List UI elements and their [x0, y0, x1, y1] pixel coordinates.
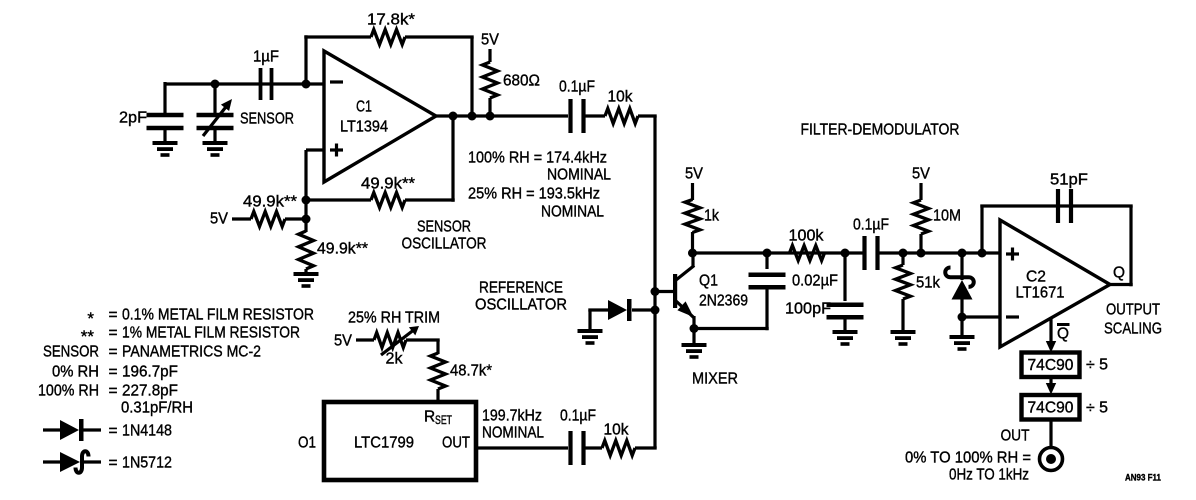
label 10k top — [608, 89, 633, 106]
schottky 1N5712 cathode curve — [945, 268, 974, 287]
Q1 collector diagonal — [676, 266, 694, 281]
wire 100pF to ground — [843, 317, 846, 331]
node junction 0.02uF — [763, 249, 772, 258]
label O1 — [298, 435, 316, 452]
label 0.1uF bottom — [560, 408, 596, 425]
svg-text:227.8pF: 227.8pF — [122, 383, 178, 400]
node junction output-a — [449, 112, 458, 121]
node junction collector — [688, 249, 697, 258]
wire plus input row — [963, 251, 1000, 254]
label 10k bottom — [604, 422, 629, 439]
svg-text:100% RH = 174.4kHz: 100% RH = 174.4kHz — [468, 150, 607, 167]
svg-text:÷ 5: ÷ 5 — [1086, 400, 1108, 417]
label 25% RH TRIM — [348, 310, 440, 327]
svg-text:LT1394: LT1394 — [340, 119, 388, 136]
ground 2pF — [153, 141, 178, 157]
wire C2 output — [1110, 283, 1133, 286]
transistor Q1 base bar — [673, 274, 677, 308]
svg-text:=: = — [108, 325, 117, 342]
node junction 51k — [899, 249, 908, 258]
wire 0.02uF bottom stub — [765, 287, 768, 330]
wire 1k to collector — [691, 232, 694, 253]
wire 5V stub 10M — [919, 183, 922, 200]
svg-text:1N4148: 1N4148 — [122, 423, 172, 440]
wire diode gnd stub — [588, 310, 591, 330]
wire lower feedback row — [306, 198, 371, 201]
C2 minus marker — [1006, 315, 1019, 318]
wire schottky bottom stub — [960, 299, 963, 317]
label legend 1N5712 — [122, 455, 172, 472]
label 0Hz TO 1kHz — [949, 467, 1029, 484]
resistor R 100k — [790, 246, 825, 261]
svg-text:0.1µF: 0.1µF — [559, 79, 595, 96]
label 100k — [789, 228, 824, 245]
svg-text:C1: C1 — [356, 99, 372, 116]
svg-text:199.7kHz: 199.7kHz — [482, 408, 542, 425]
wire collector row — [693, 251, 866, 254]
ground diode input — [578, 329, 603, 345]
node junction minus input — [958, 313, 967, 322]
label legend eq5 — [108, 383, 117, 400]
label legend 100% value — [122, 383, 178, 400]
resistor R 1k — [685, 200, 700, 233]
wire 5V stub 680 — [488, 49, 491, 62]
wire diode anode — [588, 308, 609, 311]
svg-text:NOMINAL: NOMINAL — [547, 167, 611, 184]
svg-text:=: = — [108, 455, 117, 472]
wire C1 output row — [436, 114, 568, 117]
svg-text:1N5712: 1N5712 — [122, 455, 172, 472]
wire 51k to ground — [901, 299, 904, 331]
resistor R 10k bottom — [602, 441, 635, 456]
svg-text:SCALING: SCALING — [1104, 321, 1162, 338]
wire box1 to box2 arrow — [1046, 377, 1056, 395]
label legend 0% value — [122, 364, 178, 381]
wire plus input vertical — [304, 150, 307, 219]
label 0.1uF top — [559, 79, 595, 96]
label 49.9k** shunt — [317, 241, 368, 258]
label 680ohm — [503, 73, 540, 90]
svg-text:49.9k**: 49.9k** — [317, 241, 368, 258]
svg-text:OUT: OUT — [442, 435, 470, 452]
ground schottky — [950, 335, 975, 351]
svg-text:2N2369: 2N2369 — [699, 293, 748, 310]
label 0.1uF mid — [853, 217, 889, 234]
IC O1 LTC1799 box — [324, 402, 476, 480]
wire 48.7k to box — [436, 389, 439, 403]
resistor R 49.9k shunt — [299, 231, 314, 269]
IC 74C90 second box — [1022, 395, 1080, 420]
label NOMINAL 2 — [541, 204, 604, 221]
label 10M — [933, 208, 961, 225]
svg-text:NOMINAL: NOMINAL — [541, 204, 604, 221]
label 5V 1k — [685, 166, 704, 183]
output connector — [1040, 448, 1063, 471]
wire 10k to corner — [638, 114, 657, 117]
wire 51k stub — [901, 253, 904, 265]
wire corner down 48.7k — [436, 340, 439, 354]
label OUT connector — [1001, 428, 1030, 445]
wire lower feedback vertical — [451, 116, 454, 202]
legend schottky 1N5712 triangle — [60, 452, 80, 472]
svg-text:SENSOR: SENSOR — [240, 111, 294, 128]
legend schottky 1N5712 cathode — [76, 451, 89, 473]
wire feedback up — [980, 205, 983, 253]
wire emitter vertical — [692, 316, 695, 344]
label 1uF value — [253, 49, 279, 66]
wire feedback down — [1129, 206, 1132, 286]
label legend slope — [121, 400, 193, 417]
label RSET pin — [424, 409, 452, 428]
wire feedback right vertical — [470, 37, 473, 116]
svg-text:÷ 5: ÷ 5 — [1086, 357, 1108, 374]
label 0.02uF — [792, 273, 838, 290]
wire input row — [165, 82, 324, 85]
wire lower feedback right — [405, 198, 455, 201]
label legend eq3 — [108, 344, 117, 361]
wire Qbar arrow — [1046, 317, 1056, 353]
svg-text:R: R — [424, 409, 435, 426]
label legend starstar value — [122, 325, 300, 342]
label REFERENCE — [479, 280, 563, 297]
label NOMINAL 1 — [547, 167, 611, 184]
resistor R 48.7k — [431, 353, 446, 389]
svg-text:51pF: 51pF — [1050, 172, 1088, 189]
capacitor 51pF — [1058, 189, 1071, 223]
schottky 1N5712 triangle — [952, 280, 973, 300]
label 5V pot — [334, 333, 353, 350]
label legend eq2 — [108, 325, 117, 342]
wire emitter row — [694, 327, 769, 330]
label C2 — [1026, 269, 1046, 286]
label 25% RH — [468, 186, 600, 203]
node junction diode wire — [651, 306, 660, 315]
label legend SENSOR — [43, 344, 99, 361]
label OUTPUT — [1106, 302, 1160, 319]
label div5 second — [1086, 400, 1108, 417]
node junction output-b — [468, 112, 477, 121]
label OUT pin — [442, 435, 470, 452]
label LT1394 — [340, 119, 388, 136]
wire pot to corner — [406, 338, 440, 341]
svg-text:0.1µF: 0.1µF — [853, 217, 889, 234]
wire bias node to shunt resistor — [304, 219, 307, 232]
legend schottky 1N5712 wire-in — [43, 460, 61, 463]
pot arrow — [381, 326, 419, 355]
svg-text:17.8k*: 17.8k* — [367, 12, 415, 29]
Q1 emitter diagonal — [676, 301, 694, 318]
label 51pF — [1050, 172, 1088, 189]
capacitor 2pF — [147, 115, 184, 128]
svg-text:OUT: OUT — [1001, 428, 1030, 445]
svg-text:REFERENCE: REFERENCE — [479, 280, 563, 297]
label 199.7kHz — [482, 408, 542, 425]
sensor variable arrow — [203, 99, 232, 136]
svg-text:OSCILLATOR: OSCILLATOR — [402, 236, 487, 253]
label legend 1N4148 — [122, 423, 172, 440]
svg-text:MIXER: MIXER — [692, 371, 738, 388]
capacitor 0.1uF mid — [865, 236, 878, 270]
wire 49.9k shunt to ground — [304, 269, 307, 273]
label 0% TO 100% RH = — [905, 450, 1031, 467]
ground mixer emitter — [682, 343, 707, 359]
wire cap-mid to 51k — [878, 251, 966, 254]
label legend 0% RH — [52, 364, 99, 381]
svg-text:680Ω: 680Ω — [503, 73, 540, 90]
svg-text:AN93 F11: AN93 F11 — [1125, 472, 1162, 483]
label FILTER-DEMODULATOR — [801, 122, 960, 139]
resistor R 51k — [896, 265, 911, 299]
svg-text:5V: 5V — [210, 211, 229, 228]
wire LTC1799 out — [476, 446, 568, 449]
svg-text:5V: 5V — [685, 166, 704, 183]
svg-text:49.9k**: 49.9k** — [361, 176, 415, 193]
ground sensor — [203, 141, 228, 157]
label AN93 F11 — [1125, 472, 1162, 483]
wire feedback top — [980, 204, 1132, 207]
svg-text:100pF: 100pF — [785, 301, 831, 318]
resistor R 10M — [914, 200, 929, 234]
label 2pF value — [119, 110, 147, 127]
C2 plus marker — [1006, 248, 1019, 261]
svg-text:5V: 5V — [334, 333, 353, 350]
label 49.9k** bias — [243, 194, 297, 211]
resistor R 10k top — [605, 109, 638, 124]
svg-text:O1: O1 — [298, 435, 316, 452]
svg-text:1k: 1k — [704, 208, 719, 225]
legend diode 1N4148 wire-out — [84, 428, 102, 431]
svg-text:196.7pF: 196.7pF — [122, 364, 178, 381]
svg-text:Q: Q — [1113, 265, 1125, 282]
wire 49.9k bias to node — [285, 217, 306, 220]
label legend eq4 — [108, 364, 117, 381]
capacitor 0.1uF bottom — [571, 431, 584, 465]
label 74C90 first — [1028, 357, 1074, 374]
resistor R 49.9k feedback — [371, 193, 405, 208]
op-amp C1 LT1394 triangle — [324, 51, 436, 182]
capacitor 1uF — [261, 68, 272, 100]
wire top feedback right — [405, 35, 474, 38]
wire sensor to ground — [213, 128, 216, 142]
svg-text:SENSOR: SENSOR — [417, 219, 471, 236]
svg-text:C2: C2 — [1026, 269, 1046, 286]
wire 10k to bus — [635, 446, 657, 449]
op-amp C2 LT1671 triangle — [1000, 220, 1110, 347]
node junction emitter — [690, 324, 699, 333]
label 2N2369 — [699, 293, 748, 310]
svg-text:100k: 100k — [789, 228, 824, 245]
svg-text:25% RH = 193.5kHz: 25% RH = 193.5kHz — [468, 186, 600, 203]
legend diode 1N4148 symbol — [60, 419, 84, 441]
svg-text:25% RH TRIM: 25% RH TRIM — [348, 310, 440, 327]
svg-text:=: = — [108, 307, 117, 324]
label 5V 10M — [912, 166, 931, 183]
wire minus input row — [962, 315, 1000, 318]
label legend eq6 — [108, 423, 117, 440]
capacitor 0.02uF — [749, 275, 786, 288]
label 17.8k* — [367, 12, 415, 29]
svg-text:1% METAL FILM RESISTOR: 1% METAL FILM RESISTOR — [122, 325, 300, 342]
label REF OSCILLATOR — [475, 297, 567, 314]
svg-text:0Hz TO 1kHz: 0Hz TO 1kHz — [949, 467, 1029, 484]
svg-text:100% RH: 100% RH — [38, 383, 99, 400]
label Q out — [1113, 265, 1125, 282]
svg-text:=: = — [108, 423, 117, 440]
resistor R 49.9k bias — [251, 212, 285, 227]
node junction feedback2 — [302, 196, 311, 205]
ground 100pF — [833, 330, 858, 346]
svg-text:FILTER-DEMODULATOR: FILTER-DEMODULATOR — [801, 122, 960, 139]
label legend star value — [122, 307, 314, 324]
svg-text:NOMINAL: NOMINAL — [482, 425, 544, 442]
wire 680 to output — [488, 98, 491, 116]
legend schottky 1N5712 wire-out — [84, 460, 101, 463]
wire plus input — [306, 148, 324, 151]
label 48.7k* — [450, 363, 492, 380]
wire top feedback left — [304, 35, 371, 38]
svg-text:0% TO 100% RH =: 0% TO 100% RH = — [905, 450, 1031, 467]
label 5V 680 — [481, 32, 500, 49]
label Q1 — [699, 273, 718, 290]
label legend sensor value — [122, 344, 261, 361]
C1 minus input marker — [330, 80, 343, 83]
svg-text:2pF: 2pF — [119, 110, 147, 127]
wire cap to 10k — [584, 114, 606, 117]
label legend eq1 — [108, 307, 117, 324]
wire feedback left vertical — [304, 35, 307, 84]
svg-text:SENSOR: SENSOR — [43, 344, 99, 361]
ground 51k — [891, 330, 916, 346]
svg-text:2k: 2k — [386, 351, 403, 368]
wire 10M to row — [919, 234, 922, 253]
label 49.9k** feedback — [361, 176, 415, 193]
diode 1N4148 mixer — [608, 299, 632, 321]
node junction 10M — [917, 249, 926, 258]
svg-text:Q: Q — [1057, 326, 1069, 343]
svg-text:=: = — [108, 364, 117, 381]
wire 2pF branch — [163, 82, 166, 113]
node junction 100pF — [841, 249, 850, 258]
ground 49.9k shunt — [294, 272, 319, 288]
label SENSOR OSCILLATOR line2 — [402, 236, 487, 253]
wire 5V to pot — [356, 338, 374, 341]
node junction schottky top — [958, 249, 967, 258]
label legend 100% RH — [38, 383, 99, 400]
svg-text:=: = — [108, 344, 117, 361]
label C1 — [356, 99, 372, 116]
label SCALING — [1104, 321, 1162, 338]
node junction sensor/input — [211, 80, 220, 89]
label 51k — [916, 275, 940, 292]
wire 5V to 49.9k — [232, 217, 251, 220]
label 2k — [386, 351, 403, 368]
capacitor 0.1uF top — [571, 99, 584, 133]
svg-text:SET: SET — [435, 415, 452, 427]
wire box2 to connector — [1049, 420, 1052, 448]
wire sensor branch — [213, 84, 216, 113]
node junction base wire — [651, 287, 660, 296]
label 100% RH — [468, 150, 607, 167]
label Qbar — [1057, 325, 1070, 343]
svg-text:0% RH: 0% RH — [52, 364, 99, 381]
label NOMINAL 3 — [482, 425, 544, 442]
wire diode cathode to bus — [632, 308, 655, 311]
C1 plus input marker — [330, 144, 343, 157]
resistor R 17.8k — [371, 30, 405, 45]
svg-text:48.7k*: 48.7k* — [450, 363, 492, 380]
capacitor SENSOR (variable) — [197, 115, 234, 128]
label 5V bias — [210, 211, 229, 228]
wire cap to 10k bottom — [584, 446, 603, 449]
svg-text:49.9k**: 49.9k** — [243, 194, 297, 211]
label div5 first — [1086, 357, 1108, 374]
svg-text:5V: 5V — [481, 32, 500, 49]
svg-text:10M: 10M — [933, 208, 961, 225]
potentiometer 2k — [374, 333, 406, 348]
resistor R 680 — [483, 62, 498, 98]
svg-text:74C90: 74C90 — [1028, 400, 1074, 417]
wire base connect — [655, 290, 673, 293]
svg-text:74C90: 74C90 — [1028, 357, 1074, 374]
svg-text:PANAMETRICS MC-2: PANAMETRICS MC-2 — [122, 344, 261, 361]
svg-text:5V: 5V — [912, 166, 931, 183]
svg-text:*: * — [87, 309, 94, 328]
node junction bias — [302, 215, 311, 224]
wire 2pF to ground — [163, 128, 166, 142]
svg-text:OUTPUT: OUTPUT — [1106, 302, 1160, 319]
svg-text:10k: 10k — [604, 422, 629, 439]
label LT1671 — [1016, 285, 1065, 302]
label 1k — [704, 208, 719, 225]
wire 5V stub 1k — [691, 183, 694, 200]
wire schottky top stub — [960, 253, 963, 280]
label legend star — [87, 309, 94, 328]
wire 0.02uF top stub — [765, 253, 768, 269]
svg-text:LTC1799: LTC1799 — [354, 435, 414, 452]
IC 74C90 first box — [1022, 353, 1080, 378]
svg-text:10k: 10k — [608, 89, 633, 106]
label SENSOR OSCILLATOR line1 — [417, 219, 471, 236]
svg-text:0.1µF: 0.1µF — [560, 408, 596, 425]
label legend starstar — [81, 327, 95, 346]
svg-text:0.1% METAL FILM RESISTOR: 0.1% METAL FILM RESISTOR — [122, 307, 314, 324]
wire collector vertical — [691, 253, 694, 267]
label 100pF — [785, 301, 831, 318]
capacitor 100pF — [827, 305, 864, 318]
legend diode 1N4148 wire-in — [43, 428, 61, 431]
node junction output-c — [486, 112, 495, 121]
wire long vertical bus — [653, 116, 656, 448]
svg-text:1µF: 1µF — [253, 49, 279, 66]
label 74C90 second — [1028, 400, 1074, 417]
label legend eq7 — [108, 455, 117, 472]
wire 100pF stub — [843, 253, 846, 301]
node junction inverting input — [302, 80, 311, 89]
svg-text:51k: 51k — [916, 275, 940, 292]
wire schottky to ground — [960, 317, 963, 336]
label SENSOR — [240, 111, 294, 128]
svg-text:0.02µF: 0.02µF — [792, 273, 838, 290]
svg-text:=: = — [108, 383, 117, 400]
svg-text:Q1: Q1 — [699, 273, 718, 290]
svg-text:OSCILLATOR: OSCILLATOR — [475, 297, 567, 314]
node junction feedback corner — [978, 249, 987, 258]
svg-text:LT1671: LT1671 — [1016, 285, 1065, 302]
svg-text:0.31pF/RH: 0.31pF/RH — [121, 400, 193, 417]
label LTC1799 — [354, 435, 414, 452]
label MIXER — [692, 371, 738, 388]
